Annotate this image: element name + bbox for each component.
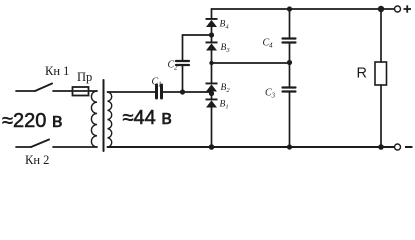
switch Кн2 bbox=[31, 140, 49, 148]
wire fuse to transformer primary bbox=[89, 90, 98, 92]
svg-text:R: R bbox=[357, 66, 367, 82]
capacitor C3 plates bbox=[283, 86, 296, 88]
junction node B1/B2 bbox=[209, 91, 214, 96]
capacitor C2 lower lead wire bbox=[182, 66, 184, 92]
junction node B2/B3 bbox=[209, 61, 213, 65]
wire top-left lead bbox=[16, 90, 35, 92]
junction node C3/C4 bbox=[287, 60, 292, 65]
capacitor C1 plates bbox=[155, 85, 158, 98]
wire switch2 to transformer primary bbox=[53, 146, 97, 148]
capacitor C2 plates bbox=[176, 64, 189, 66]
transformer T1 secondary winding bbox=[108, 92, 112, 147]
svg-text:Кн 1: Кн 1 bbox=[45, 64, 69, 78]
diode B2 bbox=[206, 83, 218, 85]
bottom rail wire bbox=[108, 146, 395, 148]
label - bbox=[405, 146, 413, 148]
junction node C3 bottom bbox=[287, 144, 292, 149]
junction node B3/B4 bbox=[209, 32, 214, 37]
capacitor C2 upper lead wire to node B bbox=[183, 35, 212, 61]
junction node output + bbox=[378, 6, 384, 12]
switch Кн1 bbox=[35, 84, 52, 92]
terminal + circle bbox=[395, 6, 401, 12]
diode stack vertical wire bbox=[211, 9, 213, 19]
load column wire upper bbox=[380, 9, 382, 62]
junction node C4 top bbox=[287, 6, 292, 11]
svg-text:Кн 2: Кн 2 bbox=[25, 153, 49, 167]
wire C1 to diode stack node A bbox=[163, 91, 212, 93]
svg-text:≈44 в: ≈44 в bbox=[123, 107, 172, 129]
junction node C2-bottom bbox=[180, 89, 185, 94]
load column wire lower bbox=[380, 85, 382, 147]
transformer T1 primary winding bbox=[91, 91, 97, 147]
diode B4 bbox=[206, 18, 218, 20]
junction node output - bbox=[378, 144, 384, 150]
transformer T1 core bbox=[103, 80, 105, 151]
diode B3 bbox=[206, 42, 218, 44]
diode B1 bbox=[206, 99, 218, 101]
wire secondary top to C1 bbox=[108, 91, 156, 93]
svg-text:≈220 в: ≈220 в bbox=[2, 110, 63, 132]
wire bottom-left lead bbox=[16, 146, 31, 148]
fuse Пр bbox=[73, 87, 89, 96]
wire node C to capacitor column bbox=[212, 62, 290, 64]
junction node diode stack bottom bbox=[209, 144, 215, 150]
resistor R body bbox=[375, 62, 387, 85]
terminal - circle bbox=[395, 144, 401, 150]
top rail wire bbox=[212, 8, 395, 10]
capacitor column wire C4 bbox=[289, 9, 291, 38]
svg-text:Пр: Пр bbox=[77, 70, 92, 84]
wire switch to fuse bbox=[53, 90, 73, 92]
label + bbox=[404, 5, 412, 12]
capacitor C4 plates bbox=[283, 37, 296, 39]
